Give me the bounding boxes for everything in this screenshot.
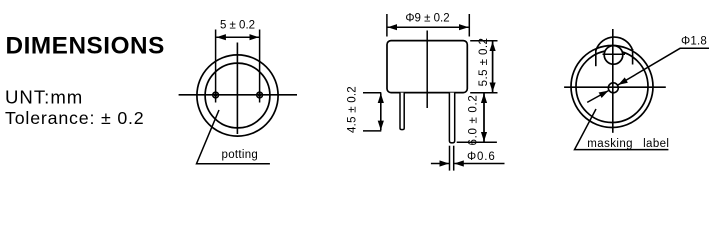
4.5 bottom extension line xyxy=(363,130,381,132)
left pin circle xyxy=(213,92,219,98)
outer case circle xyxy=(197,55,278,136)
svg-text:4.5 ± 0.2: 4.5 ± 0.2 xyxy=(347,86,359,133)
svg-text:5 ± 0.2: 5 ± 0.2 xyxy=(220,19,255,31)
4.5 top extension line xyxy=(363,92,381,94)
inner potting circle xyxy=(205,63,270,128)
svg-text:6.0 ± 0.2: 6.0 ± 0.2 xyxy=(467,95,479,146)
body bottom right extension line xyxy=(470,92,497,94)
dia1.8 opposite arrow xyxy=(587,91,608,103)
masking label leader line xyxy=(575,109,669,150)
svg-text:potting: potting xyxy=(222,149,259,161)
dia9 right extension line xyxy=(468,14,470,37)
dia0.6 left extension line xyxy=(449,146,451,171)
right pin outline xyxy=(449,93,454,143)
right pin center dot xyxy=(258,93,261,96)
pin tip extension line xyxy=(457,141,497,143)
sound hole circle dia1.8 xyxy=(608,83,618,93)
body outline xyxy=(387,41,467,93)
vertical centerline xyxy=(236,43,238,135)
potting leader line xyxy=(197,110,270,164)
dia1.8 leader line with arrow xyxy=(618,48,709,85)
svg-text:Φ9 ± 0.2: Φ9 ± 0.2 xyxy=(405,13,449,25)
right pin extension line xyxy=(259,30,261,103)
dia0.6 left arrow xyxy=(431,163,449,165)
5.5 top extension line xyxy=(470,40,497,42)
horizontal centerline xyxy=(179,94,297,96)
svg-text:5.5 ± 0.2: 5.5 ± 0.2 xyxy=(478,38,490,87)
svg-text:UNT:mm: UNT:mm xyxy=(5,87,83,108)
mounting tab arc xyxy=(596,37,633,50)
dia0.6 right arrow xyxy=(454,163,504,165)
dia9 dimension line xyxy=(388,26,469,28)
vertical centerline xyxy=(612,29,614,133)
dimension line 5 ± 0.2 xyxy=(216,36,259,38)
tab hole horizontal line xyxy=(603,53,626,55)
body centerline xyxy=(426,31,428,109)
svg-text:Φ1.8: Φ1.8 xyxy=(681,36,707,48)
svg-text:masking: masking xyxy=(587,138,633,150)
tab left side edge xyxy=(595,50,597,67)
svg-text:DIMENSIONS: DIMENSIONS xyxy=(6,33,165,60)
4.5 dimension line xyxy=(380,93,382,130)
left pin center dot xyxy=(214,93,217,96)
6.0 dimension line xyxy=(483,93,485,141)
inner label ring circle xyxy=(576,51,648,123)
5.5 dimension line xyxy=(492,42,494,93)
left pin outline xyxy=(400,93,404,130)
svg-text:Tolerance: ± 0.2: Tolerance: ± 0.2 xyxy=(5,108,145,128)
dia9 left extension line xyxy=(386,14,388,37)
left pin extension line xyxy=(215,30,217,103)
svg-text:Φ0.6: Φ0.6 xyxy=(467,151,496,163)
right pin circle xyxy=(257,92,263,98)
horizontal centerline xyxy=(564,86,666,88)
svg-text:label: label xyxy=(643,138,669,150)
outer case circle xyxy=(571,46,653,128)
dia0.6 right extension line xyxy=(453,146,455,171)
tab hole circle xyxy=(604,46,623,65)
tab right side edge xyxy=(632,49,634,65)
